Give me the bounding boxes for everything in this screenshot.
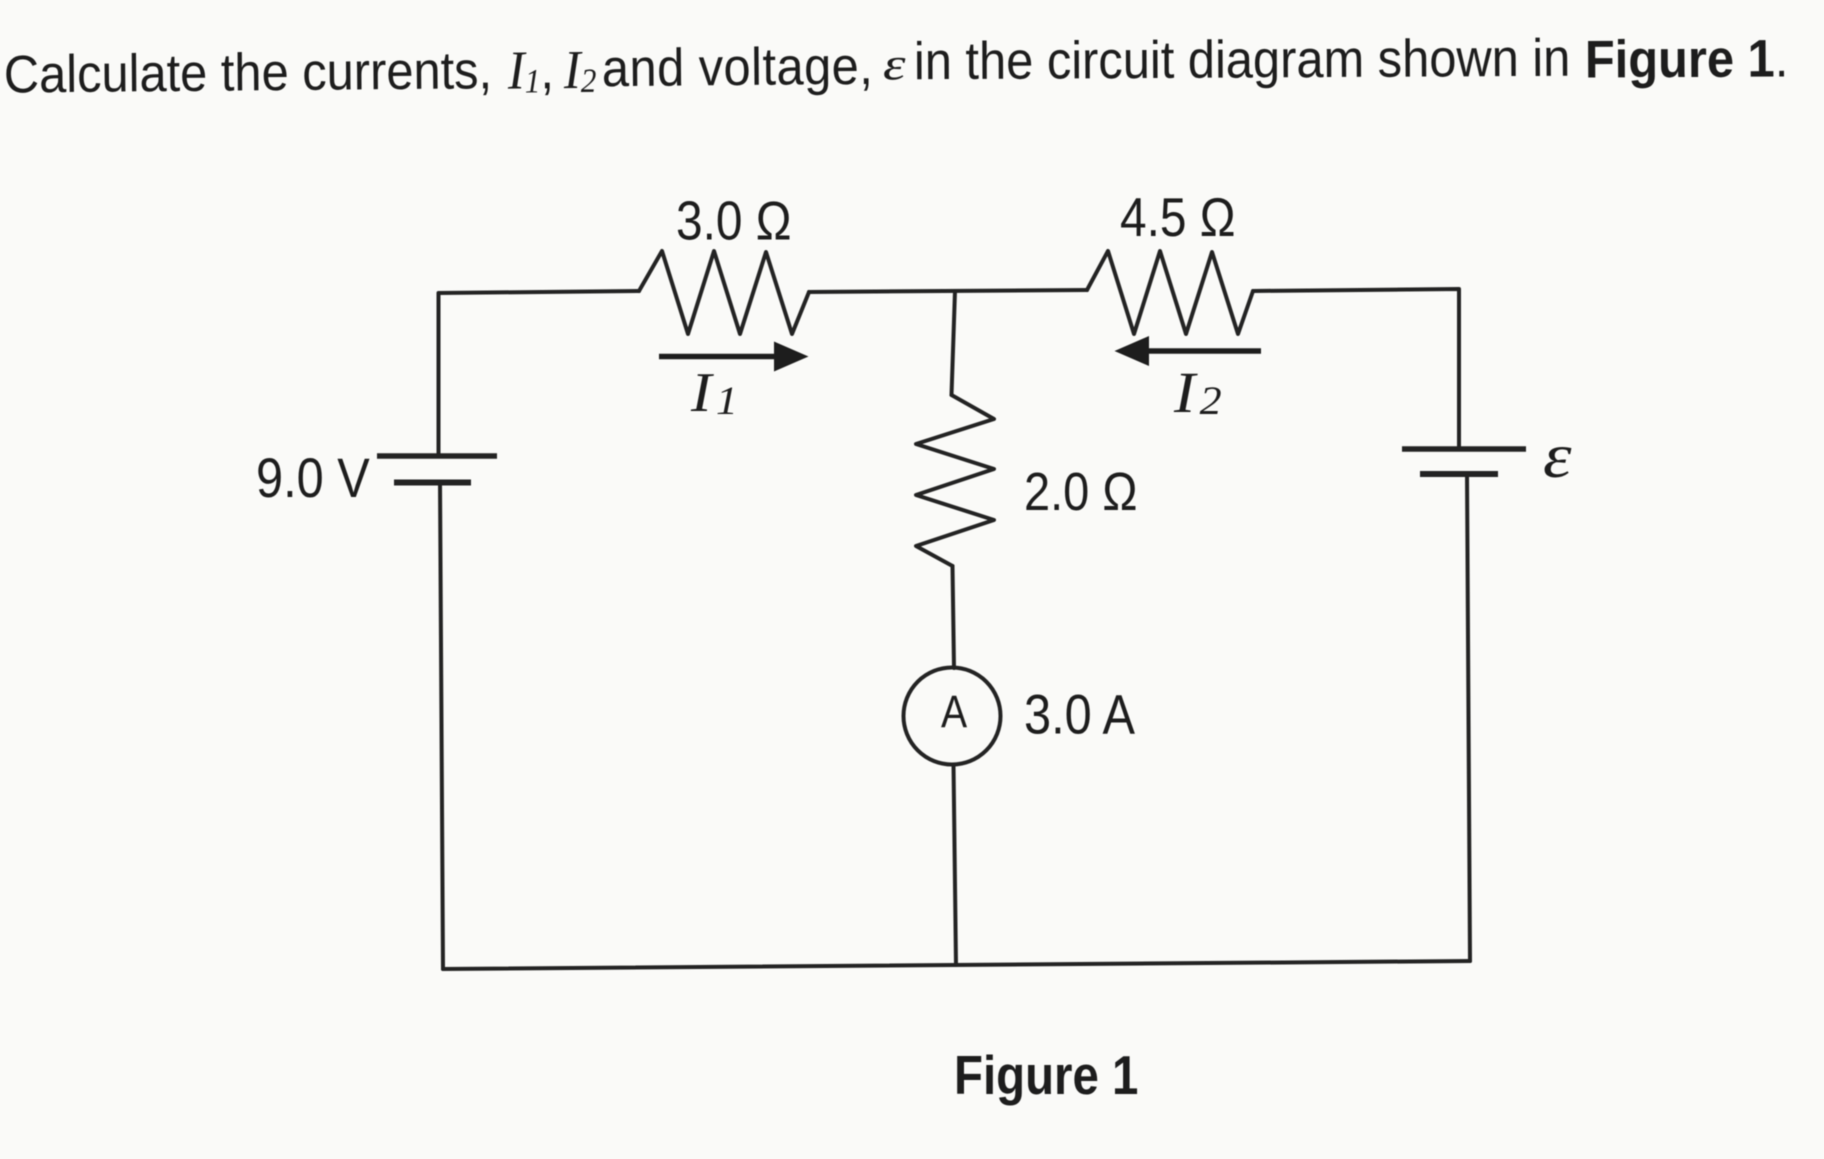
- svg-text:9.0 V: 9.0 V: [256, 447, 370, 510]
- svg-text:3.0 A: 3.0 A: [1024, 683, 1135, 746]
- svg-text:4.5 Ω: 4.5 Ω: [1120, 186, 1236, 248]
- resistor R2 4.5 ohm (top-right zigzag): [1087, 251, 1253, 334]
- wire: middle branch from top node down to R3: [952, 291, 956, 395]
- wire: ammeter to bottom wire: [954, 765, 957, 966]
- svg-text:Figure 1: Figure 1: [954, 1045, 1138, 1106]
- current arrow I1 (points right): [659, 343, 806, 370]
- ammeter M1 circle: [904, 668, 1001, 765]
- svg-text:I1,: I1,: [507, 40, 555, 101]
- wire: bottom return wire: [443, 961, 1470, 969]
- resistor R1 3.0 ohm (top-left zigzag): [639, 251, 809, 334]
- battery B1 9.0V long plate: [377, 453, 497, 459]
- svg-text:3.0 Ω: 3.0 Ω: [676, 189, 792, 251]
- battery B2 emf long plate: [1402, 446, 1526, 452]
- wire: R3 to ammeter: [953, 566, 955, 668]
- resistor R3 2.0 ohm (vertical zigzag): [916, 395, 994, 566]
- svg-text:and voltage,: and voltage,: [602, 36, 874, 98]
- svg-text:Figure 1.: Figure 1.: [1585, 29, 1789, 89]
- svg-text:I1: I1: [690, 362, 738, 424]
- wire: left branch (battery B1 top to top-left corner, to R1): [439, 291, 640, 456]
- svg-text:ε: ε: [1543, 420, 1572, 491]
- svg-text:I2: I2: [1173, 362, 1222, 426]
- wire: left branch below battery B1 to bottom-left corner: [440, 483, 443, 970]
- svg-text:ε: ε: [883, 40, 907, 91]
- svg-text:in the circuit diagram shown i: in the circuit diagram shown in: [914, 28, 1571, 91]
- battery B2 emf short plate: [1420, 471, 1498, 477]
- battery B1 9.0V short plate: [394, 480, 471, 486]
- svg-text:Calculate the currents,: Calculate the currents,: [4, 40, 493, 104]
- svg-text:A: A: [941, 686, 968, 736]
- svg-text:I2: I2: [563, 40, 597, 101]
- wire: right branch below battery B2 to bottom-right corner: [1467, 474, 1470, 961]
- current arrow I2 (points left): [1117, 338, 1261, 365]
- svg-text:2.0 Ω: 2.0 Ω: [1024, 461, 1137, 522]
- wire: top middle segment (R1 to R2 through node): [809, 290, 1087, 292]
- wire: top right corner down to battery B2: [1253, 289, 1459, 449]
